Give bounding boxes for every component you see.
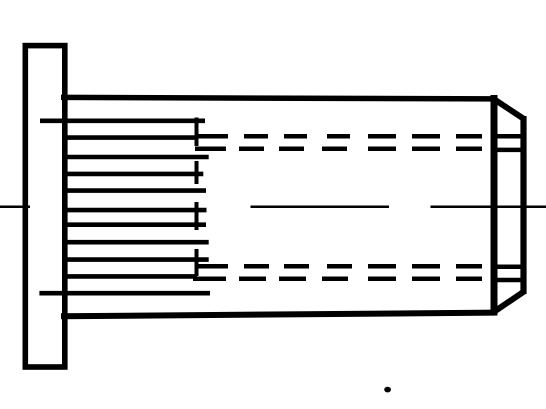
knurl line 1 (extends into flange)	[40, 119, 205, 124]
body end vertical line	[491, 95, 498, 316]
knurl line 10	[62, 274, 197, 279]
knurl line 8	[62, 240, 209, 245]
right end face vertical	[520, 116, 526, 294]
knurl line 5	[62, 188, 206, 193]
knurl line 2	[62, 135, 197, 140]
center line segment 2	[251, 206, 390, 209]
thread depth tick 2	[195, 161, 199, 184]
knurl line 9	[62, 257, 209, 262]
flange head outline	[25, 46, 65, 367]
center line segment 3	[431, 206, 546, 209]
knurl line 4	[62, 172, 203, 177]
hidden thread dash row 2 end segment	[498, 148, 521, 153]
top chamfer diagonal	[493, 99, 524, 120]
hidden thread dash row 3 end segment	[498, 265, 521, 270]
hidden thread dash row 2	[195, 147, 482, 152]
thread depth tick 4	[195, 249, 199, 276]
hidden thread dash row 3	[195, 264, 482, 269]
center line segment 1	[0, 206, 30, 209]
hidden thread dash row 4 end segment	[498, 278, 521, 283]
thread depth tick 3	[195, 202, 199, 230]
knurl line 7	[62, 222, 206, 227]
knurl line 6	[62, 208, 207, 213]
hidden thread dash row 4	[193, 277, 482, 282]
body top line	[61, 97, 495, 99]
hidden thread dash row 1 end segment	[498, 134, 521, 139]
hidden thread dash row 1	[197, 134, 482, 139]
knurl line 11 (extends into flange)	[39, 291, 210, 296]
period dot	[384, 387, 391, 393]
knurl line 3	[62, 155, 209, 160]
thread depth tick 1	[195, 118, 199, 147]
body bottom line	[61, 313, 495, 317]
bottom chamfer diagonal	[493, 292, 524, 313]
